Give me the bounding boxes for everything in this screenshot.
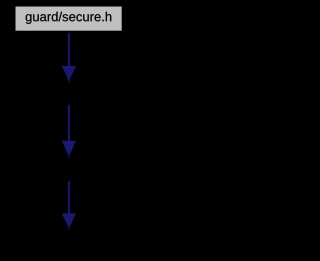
wire	[68, 33, 70, 67]
arrowhead	[62, 66, 76, 81]
node label "guard/secure.h"	[26, 12, 112, 24]
arrowhead	[62, 213, 76, 228]
node box guard/secure.h	[16, 7, 122, 31]
arrowhead tip	[68, 226, 69, 230]
wire	[68, 105, 70, 142]
arrowhead	[62, 141, 76, 157]
arrowhead tip	[68, 79, 69, 83]
include edge arrow 1	[62, 33, 76, 83]
arrowhead tip	[68, 154, 69, 158]
include edge arrow 3	[62, 181, 76, 230]
wire	[68, 181, 70, 215]
include edge arrow 2	[62, 105, 76, 158]
